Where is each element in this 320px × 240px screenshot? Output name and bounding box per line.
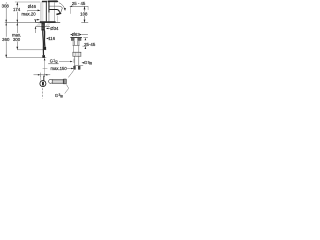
dimension line 174 / max300 (left inner) bbox=[16, 2, 18, 50]
aerator at spout tip bbox=[56, 12, 61, 15]
detail bottom leader line bbox=[74, 65, 83, 67]
label G3/8 right with arrow bbox=[82, 60, 93, 65]
side view escutcheon bbox=[48, 21, 56, 23]
svg-text:25 - 45: 25 - 45 bbox=[72, 1, 86, 6]
extension line spout tip (25-45 dim) bbox=[70, 6, 72, 14]
extension line top (lever level) bbox=[15, 1, 40, 3]
detail feet bbox=[73, 66, 80, 70]
dimension line 308 (left outer) bbox=[5, 2, 7, 57]
arrowheads on 174/max300 line bbox=[16, 2, 18, 50]
leader to G3/8 bottom bbox=[65, 85, 69, 94]
svg-text:116: 116 bbox=[48, 36, 56, 41]
dim arrows 25-45 detail bbox=[83, 38, 88, 50]
front view lever cap bbox=[42, 1, 47, 3]
side view lever bbox=[48, 0, 59, 2]
hatch left bbox=[36, 23, 50, 26]
dim line 25-45 bbox=[70, 6, 89, 11]
detail diagonal hose bbox=[68, 70, 74, 77]
lever swing arc bbox=[59, 3, 66, 11]
svg-text:Ø46: Ø46 bbox=[28, 4, 37, 9]
detail nut bbox=[73, 52, 82, 56]
detail mounting: flange bbox=[70, 38, 82, 41]
detail lower columns bbox=[75, 56, 79, 65]
label 174 bbox=[13, 7, 21, 12]
svg-text:174: 174 bbox=[13, 7, 21, 12]
hose short (front view) bbox=[43, 31, 45, 47]
dim D63 detail bbox=[70, 32, 88, 37]
side view spout bbox=[49, 6, 62, 13]
arrowheads on 308/360 line bbox=[5, 2, 7, 58]
svg-text:308: 308 bbox=[2, 3, 10, 8]
leader max20 to escutcheon bbox=[34, 19, 40, 21]
hose long connector bbox=[42, 55, 45, 58]
svg-text:108: 108 bbox=[80, 11, 88, 16]
bottom hose capsule bbox=[49, 79, 67, 84]
label 360 bbox=[2, 37, 10, 42]
svg-text:300: 300 bbox=[13, 37, 21, 42]
extension line max300 level bbox=[17, 49, 46, 51]
hose short connector bbox=[43, 47, 46, 50]
detail line under waist bbox=[73, 44, 80, 46]
front view escutcheon bbox=[40, 21, 48, 23]
label 116 with leader bbox=[46, 36, 56, 41]
counter reference line bbox=[5, 22, 36, 24]
knob circle bbox=[40, 81, 46, 87]
detail waist columns bbox=[73, 41, 79, 45]
side view body bbox=[49, 1, 55, 22]
shank threaded (front view) bbox=[41, 23, 45, 31]
label max 300 bbox=[12, 33, 21, 42]
dim line 108 vertical bbox=[84, 6, 86, 22]
label G1/2 with underline and leader bbox=[48, 58, 74, 63]
label 308 bbox=[2, 3, 10, 8]
svg-text:Ø63: Ø63 bbox=[72, 32, 81, 37]
slab thickness dim arrows bbox=[35, 19, 37, 33]
counter slab (front view) bbox=[36, 23, 61, 27]
dim line D46 with right arrow bbox=[27, 10, 40, 12]
label max150 with leader bbox=[50, 66, 73, 71]
detail columns to nut bbox=[73, 46, 78, 53]
svg-text:360: 360 bbox=[2, 37, 10, 42]
outlet extension line bbox=[57, 16, 59, 23]
svg-text:max.20: max.20 bbox=[22, 11, 37, 16]
counter tick right bbox=[81, 22, 88, 24]
label D34 with leader bbox=[46, 26, 59, 31]
vertical ext line right of hoses bbox=[43, 58, 48, 72]
label 108 bbox=[80, 11, 88, 16]
hose long (front view) bbox=[42, 31, 45, 56]
svg-text:Ø34: Ø34 bbox=[50, 26, 59, 31]
bottom tube above knob bbox=[41, 76, 44, 81]
svg-text:25-45: 25-45 bbox=[84, 42, 96, 47]
svg-text:max.150: max.150 bbox=[50, 66, 67, 71]
extension line 360 level bbox=[6, 57, 46, 59]
bottom view dim line D35 bbox=[34, 73, 51, 77]
dashed rod line bbox=[42, 88, 44, 98]
front view faucet body bbox=[41, 1, 47, 22]
